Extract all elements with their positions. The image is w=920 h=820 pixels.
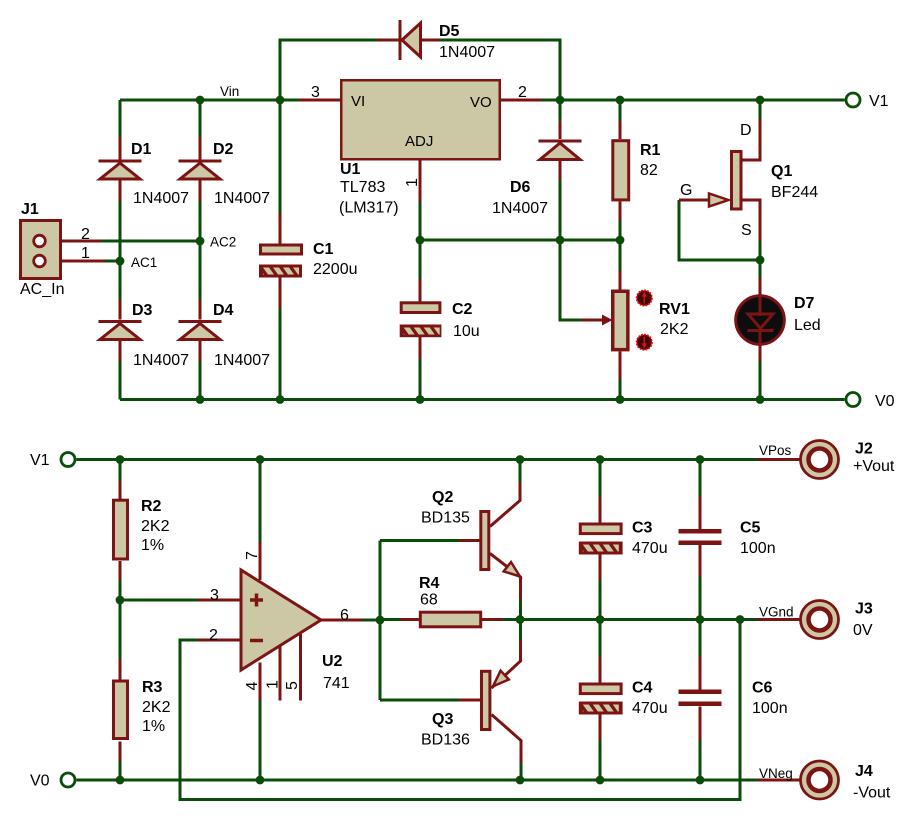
svg-text:100n: 100n — [740, 540, 776, 557]
svg-text:(LM317): (LM317) — [339, 200, 399, 217]
svg-text:D3: D3 — [132, 302, 153, 319]
svg-text:1: 1 — [81, 245, 90, 262]
svg-text:ADJ: ADJ — [405, 133, 433, 150]
svg-text:J1: J1 — [21, 201, 39, 218]
svg-text:Vin: Vin — [220, 84, 239, 99]
svg-text:D4: D4 — [213, 302, 234, 319]
svg-text:Q3: Q3 — [432, 711, 453, 728]
svg-text:1: 1 — [404, 178, 421, 187]
svg-text:68: 68 — [420, 592, 438, 609]
svg-text:C1: C1 — [313, 241, 334, 258]
svg-text:U2: U2 — [322, 653, 343, 670]
svg-text:741: 741 — [323, 675, 350, 692]
svg-text:S: S — [741, 222, 752, 239]
svg-text:D2: D2 — [213, 141, 234, 158]
svg-text:0V: 0V — [853, 622, 873, 639]
svg-text:5: 5 — [284, 681, 301, 690]
svg-text:C3: C3 — [632, 520, 653, 537]
svg-text:J4: J4 — [855, 763, 873, 780]
svg-text:VGnd: VGnd — [759, 605, 794, 620]
svg-text:C2: C2 — [452, 301, 473, 318]
svg-text:G: G — [680, 182, 692, 199]
svg-text:1N4007: 1N4007 — [133, 190, 189, 207]
svg-text:BD135: BD135 — [421, 510, 470, 527]
svg-text:AC_In: AC_In — [20, 281, 64, 298]
svg-text:2: 2 — [209, 627, 218, 644]
svg-text:6: 6 — [340, 607, 349, 624]
svg-text:4: 4 — [244, 682, 261, 691]
svg-text:2K2: 2K2 — [660, 321, 689, 338]
svg-text:1: 1 — [265, 680, 282, 689]
svg-text:Q2: Q2 — [432, 489, 453, 506]
svg-text:2200u: 2200u — [313, 261, 358, 278]
svg-text:VI: VI — [351, 93, 365, 110]
svg-text:RV1: RV1 — [659, 301, 690, 318]
svg-text:U1: U1 — [340, 161, 361, 178]
svg-text:2: 2 — [518, 84, 527, 101]
svg-text:BD136: BD136 — [421, 732, 470, 749]
svg-text:D: D — [740, 122, 752, 139]
svg-text:1%: 1% — [141, 537, 164, 554]
svg-text:J3: J3 — [855, 601, 873, 618]
svg-text:7: 7 — [244, 551, 261, 560]
svg-text:BF244: BF244 — [771, 184, 818, 201]
svg-text:V1: V1 — [30, 452, 50, 469]
svg-text:+Vout: +Vout — [853, 458, 895, 475]
svg-text:C6: C6 — [752, 680, 773, 697]
svg-text:J2: J2 — [855, 441, 873, 458]
svg-text:C4: C4 — [632, 680, 653, 697]
svg-text:TL783: TL783 — [340, 179, 385, 196]
svg-text:100n: 100n — [752, 700, 788, 717]
svg-text:Led: Led — [794, 317, 821, 334]
svg-text:1N4007: 1N4007 — [439, 44, 495, 61]
svg-text:V0: V0 — [875, 393, 895, 410]
svg-text:1N4007: 1N4007 — [214, 190, 270, 207]
svg-text:D7: D7 — [794, 295, 815, 312]
svg-text:-Vout: -Vout — [853, 785, 891, 802]
svg-text:VO: VO — [470, 94, 492, 111]
svg-text:1%: 1% — [142, 718, 165, 735]
svg-text:VPos: VPos — [759, 443, 792, 458]
svg-text:C5: C5 — [740, 520, 761, 537]
svg-text:1N4007: 1N4007 — [492, 200, 548, 217]
svg-text:2: 2 — [81, 226, 90, 243]
svg-text:D6: D6 — [510, 179, 531, 196]
svg-text:3: 3 — [210, 587, 219, 604]
svg-text:R1: R1 — [640, 142, 661, 159]
svg-text:1N4007: 1N4007 — [214, 352, 270, 369]
svg-text:2K2: 2K2 — [141, 518, 170, 535]
svg-text:V0: V0 — [30, 773, 50, 790]
svg-text:3: 3 — [311, 84, 320, 101]
svg-text:VNeg: VNeg — [759, 766, 793, 781]
svg-text:D5: D5 — [439, 23, 460, 40]
svg-text:470u: 470u — [632, 540, 668, 557]
svg-text:2K2: 2K2 — [142, 699, 171, 716]
svg-text:10u: 10u — [453, 323, 480, 340]
svg-text:R3: R3 — [142, 679, 163, 696]
svg-text:AC2: AC2 — [210, 235, 236, 250]
svg-text:Q1: Q1 — [771, 163, 792, 180]
svg-text:R4: R4 — [419, 575, 440, 592]
svg-text:AC1: AC1 — [131, 255, 157, 270]
svg-text:82: 82 — [640, 162, 658, 179]
svg-text:R2: R2 — [141, 498, 162, 515]
svg-text:470u: 470u — [632, 700, 668, 717]
svg-text:D1: D1 — [131, 141, 152, 158]
svg-text:1N4007: 1N4007 — [133, 352, 189, 369]
svg-text:V1: V1 — [869, 93, 889, 110]
